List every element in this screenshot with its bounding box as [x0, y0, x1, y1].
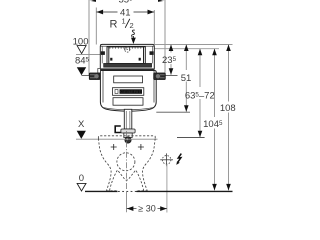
- WC inner arch (M-shaped): [110, 170, 144, 191]
- dimension 63.5-72 line: [199, 49, 201, 87]
- svg-text:51: 51: [181, 73, 192, 84]
- dimension 108 line: [228, 45, 230, 102]
- geberit label white square: [115, 90, 118, 94]
- dimension 41 left arrow: [97, 10, 104, 15]
- floor line: [85, 190, 233, 192]
- top reference line y44: [100, 44, 233, 46]
- level marker X triangle: [77, 131, 86, 139]
- box bottom thick line: [101, 68, 154, 70]
- top cut dimension right arrow: [158, 0, 165, 2]
- pipe flange: [121, 129, 135, 133]
- service opening bottom band: [104, 63, 152, 67]
- cistern body bottom inner curve: [103, 108, 153, 110]
- latch right: [139, 58, 141, 61]
- WC dashed outline: [98, 136, 155, 191]
- flush pipe: [124, 109, 132, 129]
- service opening frame inner: [109, 47, 144, 64]
- dimension 104.5 line: [214, 49, 216, 117]
- dimension 41 extension line right: [153, 10, 155, 45]
- lid reference line y48.7: [155, 48, 220, 50]
- level line 100: [76, 53, 100, 55]
- fixing level line right: [154, 74, 178, 76]
- right fixing clamp: [154, 73, 166, 80]
- svg-text:R: R: [110, 19, 118, 31]
- dimension 41 text: [118, 7, 134, 17]
- svg-text:2: 2: [130, 21, 134, 30]
- dimension >=30 text: [137, 204, 158, 214]
- fixing level line left: [82, 74, 101, 76]
- WC fixing cross right: [138, 144, 144, 150]
- WC foot bottom: [107, 190, 148, 192]
- service opening top tick row: [110, 47, 144, 49]
- level line X: [76, 138, 158, 140]
- level marker 0 triangle: [77, 183, 86, 191]
- electrical box drop line: [166, 164, 168, 212]
- flush plate panel lower: [113, 98, 143, 106]
- level marker 84.5 triangle: [77, 67, 86, 75]
- latch left: [110, 58, 112, 61]
- cistern body inner wall lines: [102, 71, 104, 103]
- WC outlet circle: [117, 153, 135, 171]
- svg-text:X: X: [78, 119, 85, 130]
- dimension 41 right arrow: [148, 10, 155, 15]
- left fixing clamp: [89, 73, 100, 80]
- svg-text:108: 108: [220, 103, 236, 114]
- svg-text:1: 1: [122, 17, 126, 26]
- pipe clip left: [115, 126, 121, 133]
- svg-text:≥ 30: ≥ 30: [138, 204, 155, 214]
- dimension 108 text: [220, 103, 237, 113]
- top cut dimension 55.5 line: [89, 0, 165, 1]
- WC fixing cross left: [111, 144, 117, 150]
- WC center line dash-dot: [126, 131, 128, 191]
- WC rim top edge: [98, 136, 155, 139]
- WC left silhouette: [98, 139, 111, 191]
- pipe ball gasket: [125, 137, 131, 143]
- geberit label box: [113, 88, 144, 96]
- wall anchor extension line left: [88, 0, 90, 75]
- side clip nub left: [101, 51, 105, 55]
- geberit label black block: [120, 89, 143, 94]
- svg-text:635–72: 635–72: [185, 90, 215, 101]
- level marker 100 triangle: [77, 46, 86, 54]
- dimension 23.5 line: [170, 45, 172, 53]
- wall anchor extension line right: [164, 0, 166, 73]
- center extension below floor: [126, 191, 128, 212]
- dimension 63.5-72 text: [187, 89, 213, 99]
- service opening frame outer: [107, 47, 145, 64]
- pipe nut: [124, 133, 132, 138]
- top cut dimension left arrow: [89, 0, 96, 2]
- dimension 63.5-72 target line: [177, 137, 205, 139]
- svg-text:0: 0: [79, 173, 84, 184]
- cistern body: [100, 71, 156, 112]
- body shoulder step left: [98, 69, 101, 73]
- flush plate panel upper: [114, 76, 143, 83]
- svg-text:GEBERIT: GEBERIT: [120, 90, 142, 94]
- box edge inner lines: [101, 46, 103, 63]
- electrical connection box: [160, 153, 173, 166]
- cistern top box: [100, 44, 154, 70]
- water supply squiggle: [132, 30, 135, 37]
- side clip nub right: [150, 51, 154, 55]
- lightning bolt: [178, 154, 182, 163]
- dimension 41 extension line left: [95, 8, 97, 45]
- screw hole dashed circle: [125, 47, 130, 52]
- dimension 51 line: [185, 45, 187, 71]
- dimension 51 text: [180, 72, 192, 81]
- dimension 41 line: [96, 11, 154, 13]
- water supply arrow: [132, 36, 134, 39]
- dimension >=30 line: [127, 208, 168, 210]
- dimension 51 target line: [156, 111, 190, 113]
- WC right silhouette: [142, 139, 155, 191]
- cistern top box second top edge: [100, 45, 154, 47]
